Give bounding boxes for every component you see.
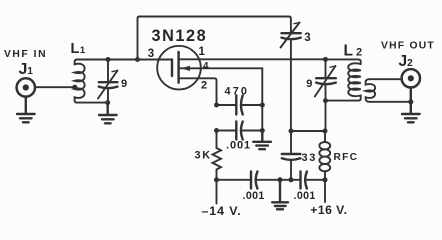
svg-text:3: 3 [304, 32, 310, 44]
capacitor C-neut 3 pf (variable) [281, 23, 301, 48]
wire: ground rail segment [257, 179, 300, 181]
ground (input tank) [99, 103, 117, 124]
svg-text:.001: .001 [226, 139, 251, 151]
node: gate line / feedback junction [135, 57, 140, 62]
node: gate line / C9a junction [106, 57, 111, 62]
svg-text:2: 2 [201, 80, 207, 92]
wire: -14V rail segment [217, 179, 251, 181]
wire: J1 to L1 tap [35, 86, 75, 88]
transistor Q1 3N128 MOSFET [157, 46, 262, 105]
capacitor C9a (input tuning, variable) [98, 60, 118, 103]
node: +16V rail junction [323, 177, 328, 182]
wire: output tank top [326, 59, 361, 64]
inductor RFC (drain choke) [319, 131, 330, 180]
connector J1 (coax jack) [17, 78, 35, 96]
resistor 3K (source bias) [213, 148, 222, 180]
wire: source down to 3K [216, 131, 218, 149]
node: tap junction on L1 [72, 85, 77, 90]
svg-text:4: 4 [203, 61, 209, 72]
wire: +16V rail segment [307, 179, 325, 181]
node: source/.001 junction [214, 128, 219, 133]
wire: neutralizing cap down to output tank cold node [290, 41, 292, 132]
ground (J2) [402, 87, 420, 122]
wire: link top to J2 [370, 78, 402, 80]
node: J2 shell/link junction [408, 99, 413, 104]
node: -14V rail junction [214, 177, 219, 182]
svg-text:1: 1 [199, 46, 206, 58]
svg-text:3K: 3K [195, 150, 212, 162]
svg-text:J1: J1 [19, 61, 34, 78]
capacitor .001 (-14V feedthrough) [251, 172, 257, 189]
inductor L2 link winding [366, 79, 376, 102]
ground (supply rail center) [272, 180, 288, 210]
inductor L1 (tapped coil) [75, 60, 85, 103]
wire: tank cold node (33/RFC link) [291, 130, 325, 132]
inductor L2 [326, 63, 361, 100]
svg-text:.001: .001 [243, 190, 265, 202]
svg-text:VHF IN: VHF IN [4, 49, 47, 60]
svg-text:RFC: RFC [334, 152, 359, 163]
capacitor .001 (source bypass) [217, 122, 263, 140]
ground (substrate) [253, 131, 271, 150]
node: source/470 junction [214, 103, 219, 108]
wire: +16V lead [324, 180, 326, 202]
node: cold node left [289, 129, 294, 134]
svg-text:VHF OUT: VHF OUT [381, 40, 435, 51]
ground (below J1) [17, 97, 35, 123]
wire: input tank bottom [77, 102, 108, 104]
svg-text:.001: .001 [294, 190, 316, 202]
node: substrate ground junction [260, 128, 265, 133]
node: 33 cap bottom junction [289, 177, 294, 182]
capacitor C9b (output tuning, variable) [315, 59, 336, 100]
node: output tank bottom junction [323, 98, 328, 103]
capacitor 33 (cold-end bypass) [282, 131, 301, 180]
wire: tank bottom down to cold node [325, 101, 327, 131]
wire: top feedback gate to neutralizing cap [138, 17, 291, 60]
node: rail ground junction [278, 177, 283, 182]
svg-text:9: 9 [306, 78, 312, 90]
svg-text:L1: L1 [71, 41, 86, 57]
capacitor 470 pf (source to substrate) [217, 96, 263, 115]
svg-text:J2: J2 [399, 53, 414, 70]
node: drain/output tank top junction [323, 57, 328, 62]
wire: input tank top (L1 to gate) [77, 59, 172, 61]
wire: substrate lead down [261, 68, 263, 130]
svg-text:L2: L2 [344, 43, 363, 60]
wire: link bottom to J2 ground [370, 101, 411, 103]
capacitor .001 (+16V feedthrough) [301, 172, 307, 189]
svg-text:–14 V.: –14 V. [202, 204, 242, 218]
node: substrate/470 junction [260, 103, 265, 108]
wire: drain line to output tank [179, 58, 326, 60]
svg-text:3N128: 3N128 [152, 27, 208, 45]
svg-text:+16 V.: +16 V. [310, 203, 347, 217]
node: cold node right [323, 129, 328, 134]
connector J2 (coax jack) [402, 69, 420, 87]
svg-text:9: 9 [121, 78, 127, 90]
wire: -14V lead [216, 180, 218, 204]
node: tank bottom junction [105, 100, 110, 105]
svg-text:3: 3 [148, 48, 154, 60]
svg-text:33: 33 [302, 152, 317, 164]
